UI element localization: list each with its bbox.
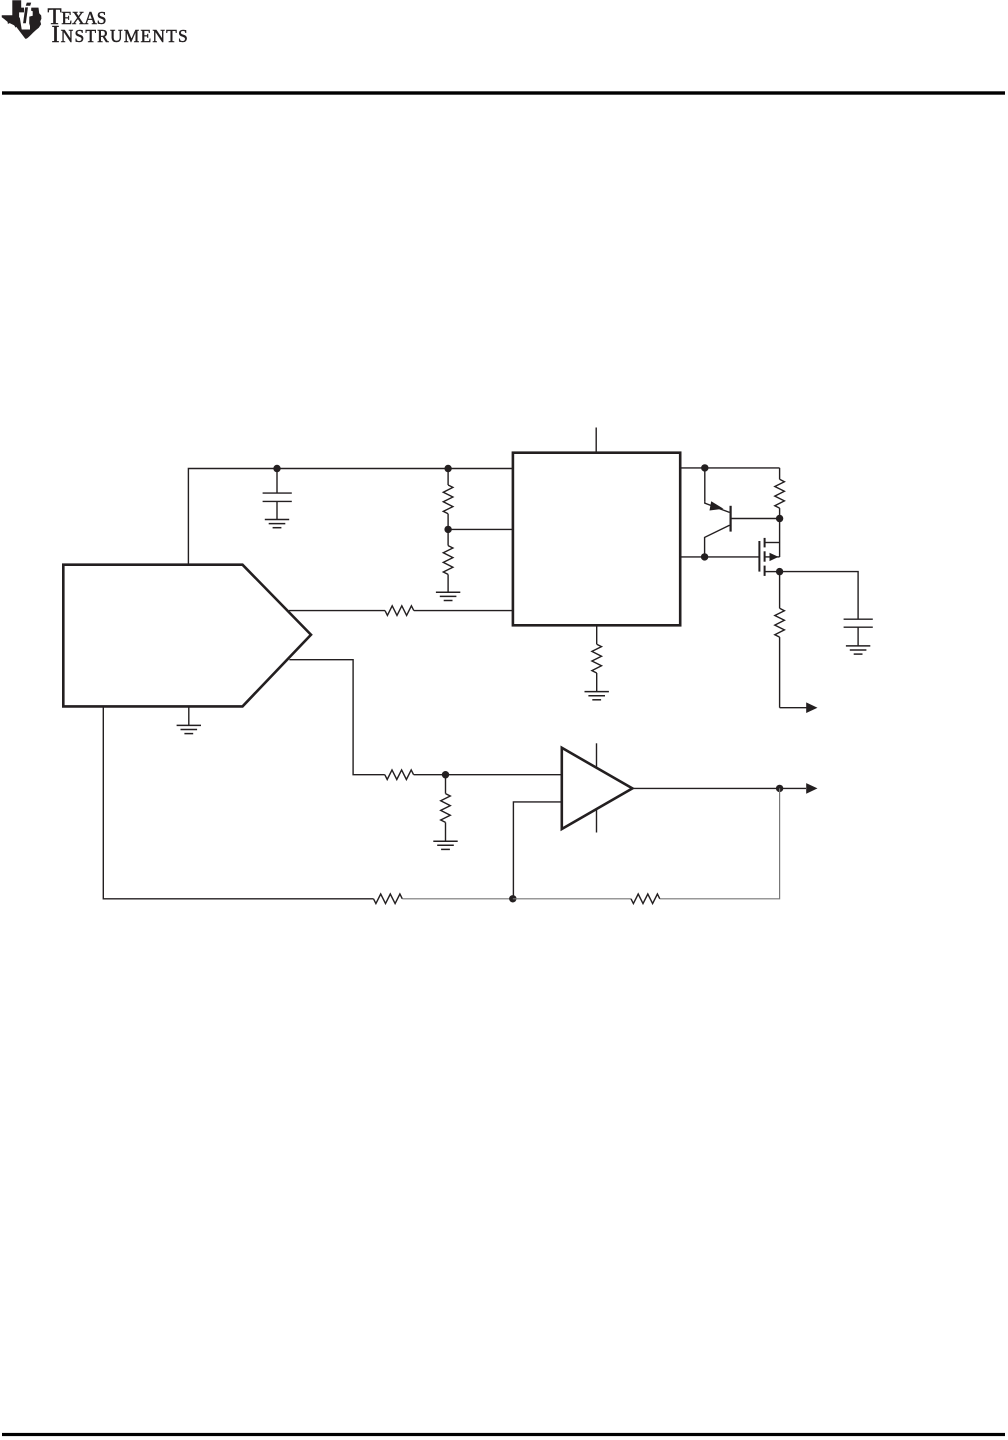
op-amp U2 — [562, 748, 633, 829]
IC bottom pin resistor R6 — [596, 625, 598, 644]
resistor R3 — [385, 606, 414, 616]
wire divider mid to IC — [448, 528, 513, 530]
capacitor C2 — [844, 618, 873, 620]
IC top pin — [595, 428, 597, 453]
resistor R8 to ground — [445, 775, 447, 794]
TI logotype text TEXAS — [48, 4, 107, 30]
ground under pentagon — [188, 706, 190, 725]
node H — [442, 771, 449, 778]
header rule — [2, 91, 1005, 94]
wire source to cap C2 — [780, 572, 859, 620]
gray wire to node J — [402, 898, 513, 900]
wire: pentagon lower output to opamp + input with resistor R7 — [289, 660, 384, 775]
node J (inverting node) — [509, 895, 516, 902]
wire Q1 collector to node F — [705, 525, 730, 557]
node B (divider top) — [444, 465, 451, 472]
wire Q1 base to node E — [731, 518, 780, 520]
ground under R2 — [436, 592, 460, 600]
node D — [701, 464, 708, 471]
gray wire R10 to output — [660, 788, 780, 898]
MOSFET M1 — [758, 541, 760, 572]
opamp inverting input wire — [513, 802, 561, 899]
opamp V+ pin — [596, 743, 598, 767]
node G (source) — [776, 568, 783, 575]
ground under R8 — [433, 841, 457, 849]
gray wire node J to R10 — [513, 898, 631, 900]
capacitor C1 — [276, 469, 278, 494]
resistor R2 (divider lower) — [447, 529, 449, 545]
resistor R9 (input) — [374, 894, 403, 904]
node F (gate node) — [701, 553, 708, 560]
node A (cap junction) — [273, 465, 280, 472]
resistor R1 (divider upper) — [447, 469, 449, 486]
IC right pin B wire to gate — [680, 556, 759, 558]
output arrow 1 — [806, 702, 817, 713]
wire to output arrow — [780, 707, 807, 709]
TI logotype text INSTRUMENTS — [52, 22, 189, 49]
wire M1 drain to node E — [779, 519, 781, 558]
wire: pentagon upper output to IC pin3 with resistor R3 — [289, 610, 385, 612]
resistor R10 (feedback) — [631, 894, 660, 904]
TI bug logo — [2, 0, 42, 38]
IC U1 box — [513, 453, 680, 626]
opamp output wire — [632, 787, 779, 789]
transistor Q1 (PNP) — [704, 468, 706, 501]
ground under C1 — [265, 520, 289, 528]
node C (divider mid) — [444, 526, 451, 533]
IC right pin A wire — [680, 467, 779, 469]
resistor R4 (top right) — [779, 468, 781, 479]
ground under C2 — [846, 646, 870, 654]
output arrow 2 — [783, 787, 806, 789]
sensor block (pentagon) — [63, 565, 311, 707]
wire: pentagon bottom to feedback row — [103, 706, 373, 898]
opamp V- pin — [596, 810, 598, 833]
ground under R6 — [585, 692, 609, 700]
node E — [776, 515, 783, 522]
footer rule — [2, 1433, 1005, 1436]
wire: pentagon top to supply rail — [188, 469, 513, 565]
resistor R5 (source load) — [779, 572, 781, 609]
node I (output node) — [776, 785, 783, 792]
